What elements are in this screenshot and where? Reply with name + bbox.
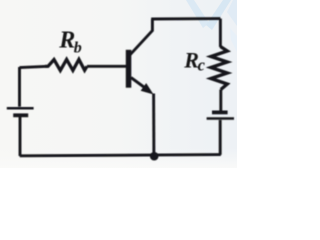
label Rc bbox=[183, 47, 205, 74]
battery V2 long plate (bottom) bbox=[207, 117, 234, 120]
wire: right rail top (to Rc) bbox=[219, 19, 222, 47]
label Rb bbox=[58, 28, 82, 57]
wire: battery V2 to bottom rail bbox=[219, 120, 222, 155]
transistor Q1 base bar bbox=[126, 50, 132, 88]
battery V2 short plate (top) bbox=[212, 111, 228, 115]
battery V1 short plate (bottom) bbox=[13, 113, 28, 117]
transistor Q1 emitter lead with arrow bbox=[131, 78, 154, 95]
wire: Rb to base of Q1 bbox=[87, 65, 127, 68]
transistor Q1 collector lead + wire to top rail bbox=[130, 19, 152, 55]
resistor Rb bbox=[45, 59, 87, 70]
svg-text:b: b bbox=[74, 39, 82, 56]
watermark swoosh top-right bbox=[186, 0, 237, 52]
resistor Rc bbox=[211, 47, 227, 90]
svg-text:c: c bbox=[198, 55, 206, 74]
wire: battery V1 to bottom rail bbox=[19, 117, 22, 156]
wire: emitter to junction bbox=[152, 94, 155, 157]
wire: top-left corner to base, with resistor Rb zigzag bbox=[20, 66, 46, 67]
wire: top rail bbox=[151, 17, 220, 20]
battery V1 long plate (top) bbox=[7, 107, 34, 110]
wire: bottom rail bbox=[20, 155, 221, 156]
wire: Rc to battery V2 bbox=[219, 90, 222, 112]
junction node (solder dot) bbox=[150, 152, 159, 161]
svg-text:R: R bbox=[58, 28, 75, 54]
wire: left rail top (corner to battery V1) bbox=[18, 67, 21, 107]
